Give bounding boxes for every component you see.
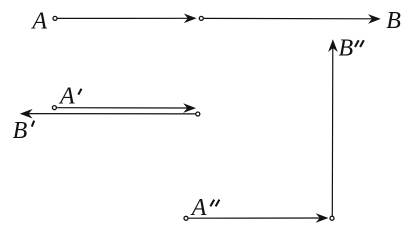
svg-text:B: B <box>386 8 401 34</box>
arrowhead on ray A'' <box>316 213 329 223</box>
svg-text:B: B <box>13 118 28 144</box>
wire: ray B' leftward <box>27 113 196 115</box>
label B'' prime tick 2 <box>360 40 364 47</box>
label B'' prime tick 1 <box>355 40 359 47</box>
label B' prime tick <box>32 121 34 127</box>
wire: ray B'' vertical <box>331 47 334 216</box>
point at A'' (open circle) <box>184 216 188 220</box>
arrowhead at B <box>368 14 381 24</box>
svg-text:A: A <box>190 195 207 221</box>
label A'' prime tick 1 <box>210 200 214 207</box>
label B'' letter <box>339 36 354 62</box>
label B <box>386 8 401 34</box>
point at B' origin (open circle) <box>196 112 200 116</box>
label A <box>30 9 47 35</box>
wire: ray A'' rightward <box>188 217 321 219</box>
midpoint node (open circle) <box>199 16 203 20</box>
point at A (open circle) <box>53 16 57 20</box>
svg-text:B: B <box>339 36 354 62</box>
label A' letter <box>58 84 75 110</box>
wire: ray A to midpoint <box>57 17 189 19</box>
corner node (open circle) <box>330 216 334 220</box>
label A'' prime tick 2 <box>216 200 220 207</box>
label B' letter <box>13 118 28 144</box>
wire: midpoint to B <box>204 17 373 19</box>
svg-text:A: A <box>58 84 75 110</box>
arrowhead on ray A to midpoint <box>184 14 197 24</box>
svg-text:A: A <box>30 9 47 35</box>
arrowhead on ray A' <box>183 103 196 113</box>
label A' prime tick <box>78 89 81 95</box>
point at A' (open circle) <box>52 106 56 110</box>
label A'' letter <box>190 195 207 221</box>
wire: ray A' rightward <box>57 107 189 109</box>
arrowhead on ray B'' pointing up <box>328 39 338 52</box>
arrowhead on ray B' <box>20 109 33 119</box>
